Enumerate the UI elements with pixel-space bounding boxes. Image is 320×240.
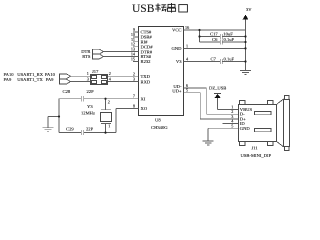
svg-text:C6: C6: [212, 37, 218, 42]
svg-text:12MHz: 12MHz: [81, 111, 95, 116]
svg-text:7: 7: [133, 94, 135, 99]
svg-text:3V: 3V: [246, 7, 252, 12]
svg-text:22P: 22P: [86, 127, 94, 132]
svg-text:J17: J17: [92, 69, 99, 74]
svg-text:USB: USB: [132, 3, 155, 15]
svg-text:DZ_USB: DZ_USB: [209, 86, 226, 91]
svg-text:R232: R232: [141, 59, 152, 64]
svg-text:0.1uF: 0.1uF: [224, 56, 235, 61]
svg-text:2: 2: [108, 99, 110, 104]
svg-text:GND: GND: [240, 126, 251, 131]
svg-text:GND: GND: [172, 46, 183, 51]
svg-text:V3: V3: [176, 59, 182, 64]
svg-text:Y3: Y3: [87, 104, 93, 109]
svg-text:UD+: UD+: [172, 89, 182, 94]
svg-text:1: 1: [186, 43, 188, 48]
svg-text:5: 5: [186, 88, 188, 93]
svg-text:RXD: RXD: [141, 79, 151, 84]
svg-text:1: 1: [108, 124, 110, 129]
svg-text:2: 2: [133, 71, 135, 76]
svg-text:10uF: 10uF: [223, 31, 233, 36]
svg-text:J11: J11: [252, 146, 259, 151]
svg-text:PA9: PA9: [4, 77, 12, 82]
svg-text:USB-MINI_DIP: USB-MINI_DIP: [241, 153, 272, 158]
svg-text:C17: C17: [210, 31, 218, 36]
svg-text:C29: C29: [66, 127, 74, 132]
svg-text:5: 5: [231, 123, 233, 128]
svg-text:USART1_RX: USART1_RX: [17, 72, 43, 77]
svg-text:C28: C28: [63, 89, 71, 94]
svg-text:TXD: TXD: [141, 74, 151, 79]
svg-text:XI: XI: [141, 96, 146, 101]
svg-text:U8: U8: [155, 118, 161, 123]
svg-text:2: 2: [109, 71, 111, 76]
svg-text:8: 8: [133, 104, 135, 109]
svg-text:PA10: PA10: [4, 72, 15, 77]
svg-text:VCC: VCC: [172, 28, 181, 33]
svg-text:PA9: PA9: [46, 77, 54, 82]
svg-text:15: 15: [131, 56, 135, 61]
svg-text:C7: C7: [211, 56, 217, 61]
svg-text:USART1_TX: USART1_TX: [17, 77, 43, 82]
svg-text:CH340G: CH340G: [151, 125, 168, 130]
svg-text:0.1uF: 0.1uF: [224, 37, 235, 42]
svg-text:22P: 22P: [87, 89, 95, 94]
svg-text:PA10: PA10: [45, 72, 56, 77]
svg-text:XO: XO: [141, 106, 148, 111]
svg-text:RTS: RTS: [82, 54, 91, 59]
svg-text:3: 3: [133, 77, 135, 82]
svg-text:3: 3: [87, 77, 89, 82]
svg-text:1: 1: [87, 71, 89, 76]
svg-text:16: 16: [185, 25, 189, 30]
